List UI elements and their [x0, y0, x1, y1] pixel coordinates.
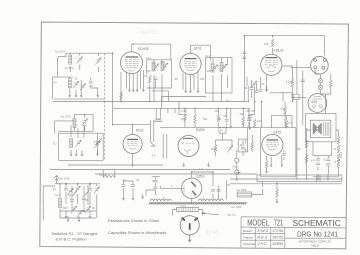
svg-text:.05: .05	[251, 109, 255, 113]
svg-text:5.5: 5.5	[94, 140, 98, 144]
svg-text:1M: 1M	[218, 117, 222, 121]
svg-text:300: 300	[181, 117, 186, 121]
svg-text:250: 250	[200, 77, 205, 81]
svg-text:465: 465	[207, 69, 212, 73]
svg-text:5.1: 5.1	[53, 187, 57, 191]
svg-text:5000: 5000	[339, 152, 343, 158]
svg-text:.01: .01	[261, 82, 265, 86]
svg-text:1.0: 1.0	[199, 167, 203, 171]
svg-text:.02: .02	[122, 178, 126, 182]
svg-text:No 1076: No 1076	[60, 177, 70, 181]
svg-text:.01: .01	[239, 143, 243, 147]
svg-text:500k: 500k	[211, 147, 217, 151]
svg-text:MODEL: MODEL	[247, 218, 269, 228]
svg-text:DRG No 1241: DRG No 1241	[297, 230, 338, 239]
svg-text:EM34: EM34	[196, 128, 205, 132]
svg-text:20k: 20k	[264, 42, 269, 46]
svg-text:Drawn: Drawn	[243, 229, 252, 233]
svg-text:S4: S4	[92, 206, 96, 210]
svg-text:Checked: Checked	[243, 242, 255, 246]
svg-text:721: 721	[274, 218, 284, 228]
svg-text:& in B.C. Position: & in B.C. Position	[56, 237, 87, 242]
svg-text:MW: MW	[63, 206, 68, 210]
svg-text:EF22: EF22	[274, 131, 282, 135]
svg-text:20/9/51: 20/9/51	[272, 242, 283, 246]
svg-text:.05: .05	[174, 77, 178, 81]
svg-text:✓ mod 721: ✓ mod 721	[137, 29, 158, 35]
svg-text:350: 350	[297, 147, 302, 151]
svg-text:Capacities Shown in Mic: Capacities Shown in Microfarads,	[108, 230, 167, 235]
svg-text:C: C	[163, 196, 165, 200]
svg-text:1700: 1700	[181, 109, 187, 113]
svg-text:465: 465	[146, 69, 151, 73]
svg-text:No 1098: No 1098	[237, 188, 247, 192]
svg-text:1.5: 1.5	[288, 121, 292, 125]
svg-text:6F31: 6F31	[194, 46, 202, 50]
svg-text:5.7: 5.7	[220, 129, 224, 133]
svg-text:R.E.S: R.E.S	[258, 236, 268, 240]
svg-text:S3: S3	[68, 193, 72, 197]
svg-text:Traced: Traced	[243, 235, 253, 239]
svg-text:No: No	[307, 128, 311, 132]
svg-text:50k: 50k	[203, 117, 208, 121]
svg-text:.05: .05	[136, 178, 140, 182]
svg-text:E.W.S: E.W.S	[258, 229, 269, 233]
svg-text:H: H	[152, 179, 154, 183]
svg-text:.05: .05	[244, 86, 248, 90]
svg-text:MELB: MELB	[311, 243, 319, 247]
svg-text:J.H.C: J.H.C	[257, 242, 268, 246]
svg-text:100: 100	[143, 74, 148, 78]
svg-text:1.Tens: 1.Tens	[286, 80, 294, 84]
svg-text:10k: 10k	[257, 119, 262, 123]
svg-text:No 1: No 1	[146, 56, 152, 60]
svg-text:15k: 15k	[215, 109, 220, 113]
svg-text:Resistances Shown in Ohm: Resistances Shown in Ohms	[108, 218, 159, 223]
svg-text:ECH35: ECH35	[138, 47, 149, 51]
svg-text:C.3: C.3	[89, 84, 94, 88]
svg-text:Switches S1 - S7 Ganged: Switches S1 - S7 Ganged	[52, 231, 98, 236]
svg-text:No 3: No 3	[55, 193, 61, 197]
svg-text:6J5G: 6J5G	[197, 175, 205, 179]
svg-text:4.C: 4.C	[226, 99, 230, 103]
svg-text:5.4: 5.4	[53, 80, 57, 84]
svg-text:12 41: 12 41	[206, 230, 219, 236]
svg-text:17/7/51: 17/7/51	[272, 229, 283, 233]
svg-text:No 1075: No 1075	[61, 115, 71, 119]
svg-text:6X5: 6X5	[312, 100, 318, 104]
svg-text:S1 S7/2: S1 S7/2	[65, 66, 75, 70]
svg-text:25k: 25k	[281, 107, 286, 111]
svg-text:6F22: 6F22	[136, 129, 144, 133]
svg-text:ASTOR RADIO CORP LTD: ASTOR RADIO CORP LTD	[299, 239, 332, 243]
svg-text:Gram: Gram	[232, 165, 238, 169]
svg-text:S6: S6	[151, 144, 155, 148]
svg-text:SCHEMATIC: SCHEMATIC	[293, 218, 341, 228]
svg-text:33k: 33k	[240, 112, 245, 116]
svg-text:19/7/51: 19/7/51	[272, 236, 283, 240]
svg-text:6P T.C.: 6P T.C.	[228, 213, 237, 217]
svg-text:C8: C8	[85, 198, 89, 202]
svg-text:5.2: 5.2	[53, 142, 57, 146]
svg-text:No 1074: No 1074	[55, 50, 65, 54]
svg-text:No 2: No 2	[205, 54, 211, 58]
svg-text:No 75C: No 75C	[99, 173, 108, 177]
svg-text:5.6: 5.6	[152, 154, 156, 158]
svg-text:No 1099: No 1099	[232, 205, 242, 209]
svg-text:5.3: 5.3	[83, 123, 87, 127]
svg-text:62305: 62305	[180, 206, 187, 208]
svg-text:EBL31: EBL31	[274, 48, 284, 52]
